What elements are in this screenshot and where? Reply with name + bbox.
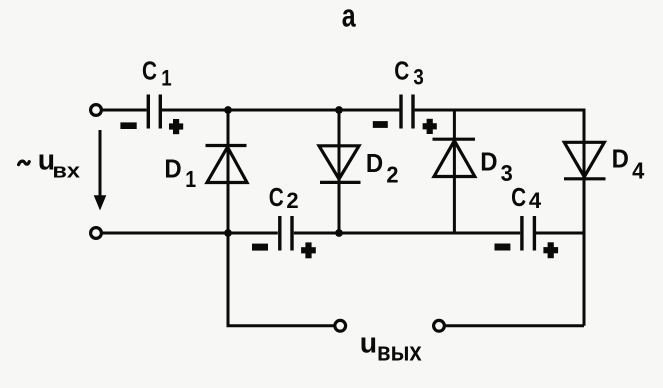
C4 plus <box>543 242 558 258</box>
wire output right segment <box>446 324 584 327</box>
capacitor C4 <box>522 216 535 251</box>
diode D4 <box>564 142 606 179</box>
svg-text:C: C <box>142 56 157 85</box>
node dot mid right <box>335 229 343 237</box>
diode D3 <box>433 110 476 233</box>
output terminal right <box>434 320 445 331</box>
node dot mid left <box>224 229 232 237</box>
diode D2 <box>319 110 361 233</box>
C4 minus <box>495 244 511 251</box>
svg-text:а: а <box>342 0 357 34</box>
svg-text:D: D <box>612 145 629 174</box>
svg-text:D: D <box>366 149 383 178</box>
input arrow <box>94 130 107 211</box>
svg-text:2: 2 <box>286 188 298 213</box>
svg-text:C: C <box>511 183 526 212</box>
svg-text:1: 1 <box>161 67 171 91</box>
C2 minus <box>252 244 268 251</box>
svg-text:u: u <box>360 327 377 359</box>
capacitor C2 <box>280 216 292 251</box>
svg-text:вх: вх <box>52 159 80 182</box>
label D3 <box>480 148 513 187</box>
label ~ u vx <box>19 144 80 182</box>
svg-text:1: 1 <box>185 166 196 192</box>
input terminal bottom <box>91 228 102 239</box>
node dot top right <box>335 106 343 114</box>
label C2 <box>269 183 299 213</box>
svg-text:3: 3 <box>413 66 423 90</box>
wire top rail middle segment <box>162 109 399 112</box>
label C4 <box>511 183 542 213</box>
label D4 <box>612 145 645 184</box>
label u vyx <box>360 327 423 367</box>
input terminal top <box>91 105 102 116</box>
C1 minus <box>120 122 136 129</box>
svg-text:4: 4 <box>529 188 542 213</box>
svg-text:2: 2 <box>386 162 398 188</box>
svg-text:C: C <box>269 183 284 212</box>
C3 minus <box>373 121 388 128</box>
title a <box>342 0 357 34</box>
svg-text:D: D <box>480 148 497 177</box>
node dot top left <box>224 106 232 114</box>
svg-text:вых: вых <box>377 338 422 367</box>
svg-text:D: D <box>164 155 181 184</box>
wire middle rail right segment <box>536 232 584 235</box>
svg-text:4: 4 <box>632 158 645 184</box>
C3 plus <box>423 119 437 134</box>
C1 plus <box>169 119 183 134</box>
wire output left drop <box>228 233 334 326</box>
wire middle rail center segment <box>294 232 520 235</box>
diode D1 <box>206 110 248 233</box>
svg-text:C: C <box>394 56 409 85</box>
wire top rail right segment with corner down right rail <box>415 110 584 326</box>
C2 plus <box>301 242 316 258</box>
output terminal left <box>335 320 346 331</box>
label D2 <box>366 149 399 188</box>
label C1 <box>142 56 172 90</box>
wire middle rail left segment <box>102 232 278 235</box>
label C3 <box>394 56 424 90</box>
wire top rail left segment <box>102 109 147 112</box>
capacitor C3 <box>401 95 413 129</box>
capacitor C1 <box>148 95 160 129</box>
label D1 <box>164 155 196 192</box>
